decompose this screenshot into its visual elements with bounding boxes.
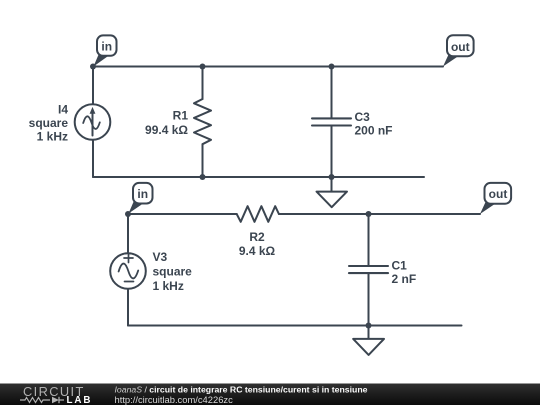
svg-text:C3: C3 — [355, 110, 371, 124]
svg-text:square: square — [153, 265, 193, 279]
svg-text:http://circuitlab.com/c4226zc: http://circuitlab.com/c4226zc — [115, 394, 234, 405]
wire top rail (in to out, top circuit) — [93, 66, 443, 68]
wire bottom rail bottom circuit — [128, 325, 462, 327]
logo CircuitLab — [20, 384, 92, 405]
flag label out (bottom circuit) — [480, 183, 511, 214]
wire bottom circuit right of R2 to out — [279, 213, 480, 215]
wire bottom circuit left of R2 — [128, 213, 237, 215]
wire V3 top lead — [127, 214, 129, 254]
ground bottom circuit — [353, 326, 384, 355]
node C3 top junction — [329, 64, 335, 70]
wire I4 bottom — [92, 140, 94, 178]
node in2 junction — [125, 211, 131, 217]
capacitor C1 plates — [349, 266, 388, 273]
svg-text:out: out — [489, 187, 508, 201]
svg-text:200 nF: 200 nF — [355, 124, 393, 138]
wire C3 top lead — [331, 67, 333, 119]
svg-text:out: out — [451, 40, 470, 54]
svg-text:99.4 kΩ: 99.4 kΩ — [145, 123, 188, 137]
wire R1 top lead — [202, 67, 204, 100]
flag label in (bottom circuit) — [129, 183, 153, 214]
flag label out (top circuit) — [443, 35, 474, 66]
wire left branch I4 top — [92, 67, 94, 105]
svg-text:R1: R1 — [173, 109, 189, 123]
node C3 bottom junction — [329, 174, 335, 180]
wire R1 bottom lead — [202, 144, 204, 177]
footer credit text — [115, 385, 368, 405]
svg-text:1 kHz: 1 kHz — [153, 279, 184, 293]
ground top circuit — [317, 177, 348, 207]
current source I4 — [75, 104, 111, 140]
wire V3 bottom lead — [127, 289, 129, 326]
svg-text:2 nF: 2 nF — [392, 272, 417, 286]
wire C3 bottom lead — [331, 126, 333, 177]
node R1 top junction — [200, 64, 206, 70]
flag label in (top circuit) — [94, 35, 117, 66]
capacitor C3 plates — [312, 118, 351, 125]
svg-text:LAB: LAB — [67, 395, 93, 405]
svg-text:I4: I4 — [58, 103, 68, 117]
svg-text:in: in — [101, 39, 112, 53]
svg-text:9.4 kΩ: 9.4 kΩ — [239, 244, 276, 258]
svg-text:1 kHz: 1 kHz — [37, 130, 68, 144]
svg-text:R2: R2 — [249, 230, 265, 244]
node in1 junction — [90, 64, 96, 70]
svg-text:in: in — [137, 187, 148, 201]
svg-text:C1: C1 — [392, 259, 408, 273]
wire bottom rail top circuit — [93, 176, 424, 178]
resistor R1 body — [194, 99, 211, 144]
node R1 bottom junction — [200, 174, 206, 180]
wire C1 bottom lead — [368, 274, 370, 326]
node C1 top junction — [366, 211, 372, 217]
wire C1 top lead — [368, 214, 370, 266]
svg-text:square: square — [29, 116, 69, 130]
svg-text:V3: V3 — [153, 250, 168, 264]
footer bar — [0, 384, 540, 405]
voltage source V3 — [110, 253, 146, 289]
node dots — [90, 64, 372, 329]
resistor R2 body — [237, 206, 279, 222]
node C1 bottom junction — [366, 323, 372, 329]
